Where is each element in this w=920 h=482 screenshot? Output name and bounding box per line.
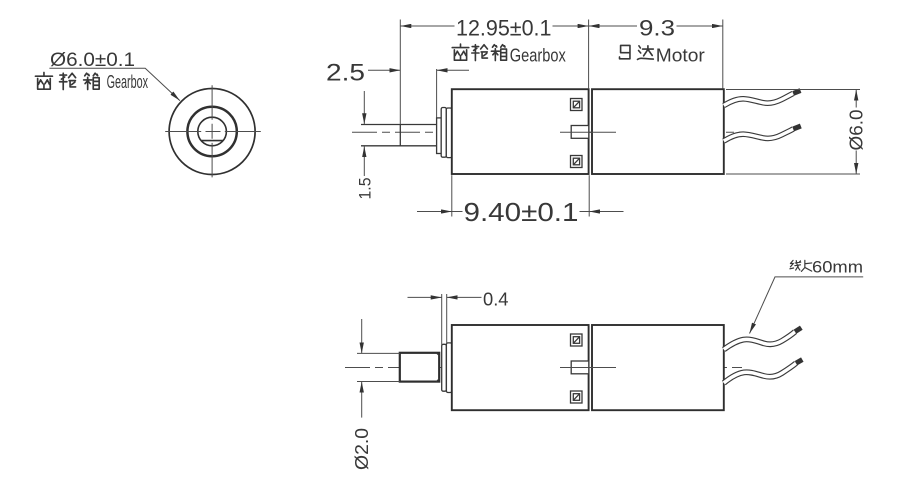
label 齿轮箱Gearbox above gearbox — [452, 44, 469, 60]
dim Ø6.0 (right side of upper view) — [726, 90, 860, 175]
bottom view: motor body — [592, 325, 724, 410]
upper view: shaft collar — [437, 118, 442, 154]
upper view: wire 1 (top lead) — [724, 91, 801, 106]
leader line for Ø6.0±0.1 label — [49, 68, 180, 100]
bottom view: solid center line through terminals — [560, 367, 616, 369]
svg-text:0.4: 0.4 — [483, 288, 509, 309]
svg-text:9.3: 9.3 — [639, 16, 675, 41]
upper view: wire 2 (bottom lead) — [724, 126, 801, 141]
upper view: motor body — [592, 89, 724, 174]
upper view: solid center line through terminals — [560, 131, 616, 133]
upper view: solder tab top — [571, 99, 583, 111]
dim text Ø2.0 (rotated) — [352, 428, 372, 470]
bottom view: wire 3 (top lead) — [724, 328, 802, 350]
bottom view: wire 4 (bottom lead) — [724, 360, 803, 383]
dim Ø2.0: dimension line + arrows — [361, 319, 363, 418]
upper view: solder tab bottom — [571, 156, 583, 168]
bottom view: middle terminal tab — [571, 361, 589, 374]
bottom view: bearing plate B — [446, 343, 451, 393]
label 马达Motor above motor — [620, 45, 630, 58]
label 齿轮箱 (chi lun xiang) — [35, 73, 52, 90]
dim 0.4: arrows + lines — [408, 296, 482, 298]
upper view: center line — [352, 131, 742, 133]
dim 12.95±0.1: dimension line + arrows — [400, 25, 588, 27]
bottom view: gearbox body — [452, 325, 589, 410]
svg-text:1.5: 1.5 — [356, 178, 375, 200]
end view: gearbox front circle group — [169, 89, 255, 175]
svg-text:2.5: 2.5 — [326, 60, 365, 87]
svg-text:Ø2.0: Ø2.0 — [352, 428, 372, 470]
shaft flat chord — [201, 140, 223, 142]
bottom view: center line — [345, 367, 742, 369]
svg-text:Motor: Motor — [656, 46, 705, 66]
bottom view: bearing plate A — [442, 344, 447, 391]
svg-text:Gearbox: Gearbox — [107, 72, 149, 92]
bottom view: shaft chamfer ticks — [436, 353, 440, 382]
svg-text:60mm: 60mm — [812, 258, 863, 277]
label 线长 (xian chang) — [790, 260, 801, 270]
upper view: shaft Ø1.5 — [361, 125, 437, 146]
bottom view: solder tab top — [571, 334, 583, 346]
center line vertical (end view) — [211, 85, 213, 177]
upper view: middle terminal tab — [571, 126, 589, 139]
dim 9.3: dimension line + arrows — [589, 25, 723, 27]
bottom view: solder tab bottom — [571, 391, 583, 403]
dim 1.5 (vertical, shaft diameter) — [363, 91, 365, 176]
svg-text:Ø6.0±0.1: Ø6.0±0.1 — [50, 50, 135, 71]
center line horizontal (end view) — [165, 131, 261, 133]
dim Ø2.0: extension lines — [357, 353, 400, 381]
label 线长60mm leader — [750, 277, 864, 334]
svg-text:9.40±0.1: 9.40±0.1 — [464, 199, 579, 227]
upper view: bearing plate 1 — [441, 108, 446, 158]
dim 0.4: extension lines — [442, 294, 447, 345]
upper view: gearbox body — [452, 89, 589, 174]
dim 12.95±0.1: extension lines — [400, 20, 723, 217]
svg-text:Gearbox: Gearbox — [510, 46, 566, 66]
dim 9.40±0.1 — [417, 211, 624, 213]
upper view: bearing plate 2 — [446, 108, 452, 158]
svg-text:Ø6.0: Ø6.0 — [847, 110, 867, 151]
outer circle (gearbox Ø6.0 outline) — [169, 89, 255, 175]
svg-text:12.95±0.1: 12.95±0.1 — [456, 16, 552, 41]
bottom view: shaft Ø2.0 (bold, knurled end) — [400, 353, 439, 382]
middle circle (gear ring, bold) — [187, 107, 236, 156]
inner circle (output shaft Ø2.0) — [198, 117, 227, 146]
